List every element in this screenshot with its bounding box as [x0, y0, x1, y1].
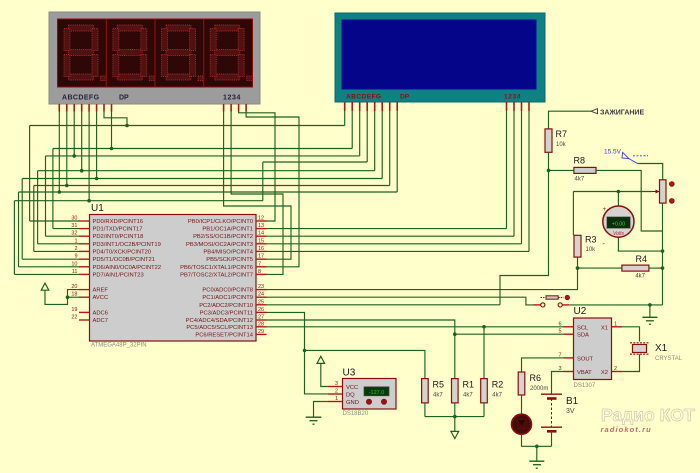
svg-text:SOUT: SOUT	[577, 356, 594, 362]
wire battery to gnd	[551, 431, 553, 446]
svg-text:DP: DP	[119, 95, 129, 102]
svg-text:30: 30	[71, 216, 77, 222]
push button	[534, 295, 570, 307]
svg-text:1234: 1234	[504, 94, 521, 101]
wire R7 bottom to junction	[548, 152, 550, 170]
svg-text:SCL: SCL	[577, 325, 589, 331]
svg-text:29: 29	[258, 329, 264, 335]
wire 7seg pin B drop	[66, 112, 68, 186]
wire resistor bottoms row	[424, 403, 426, 417]
wire DISP2 seg pin 2 drop	[351, 111, 353, 149]
svg-text:+: +	[603, 207, 607, 213]
svg-text:3: 3	[335, 381, 338, 387]
svg-text:15: 15	[258, 238, 264, 244]
svg-text:PC6/RESET/PCINT14: PC6/RESET/PCINT14	[195, 332, 253, 338]
wire 7seg pin G drop (jog)	[104, 112, 127, 126]
svg-text:27: 27	[258, 315, 264, 321]
svg-text:6: 6	[558, 321, 561, 327]
U1 right pins	[256, 216, 267, 335]
wire DISP2 seg pin 1 drop	[344, 111, 346, 126]
wire R3 to PC0	[267, 268, 578, 290]
svg-text:4k7: 4k7	[575, 177, 585, 183]
svg-text:2: 2	[74, 246, 77, 252]
svg-text:DQ: DQ	[346, 393, 355, 399]
svg-text:PC2/ADC2/PCINT10: PC2/ADC2/PCINT10	[199, 303, 253, 309]
svg-text:VBAT: VBAT	[577, 370, 592, 376]
svg-text:PD6/AIN0/OC0A/PCINT22: PD6/AIN0/OC0A/PCINT22	[93, 265, 162, 271]
svg-text:ADC6: ADC6	[93, 310, 108, 316]
svg-text:PC3/ADC3/PCINT11: PC3/ADC3/PCINT11	[200, 310, 253, 316]
svg-text:+0.00: +0.00	[612, 221, 625, 227]
blue display DISP2 (4-digit)	[335, 13, 545, 102]
svg-text:5: 5	[558, 329, 561, 335]
resistor R3	[574, 235, 597, 258]
svg-text:24: 24	[258, 292, 264, 298]
svg-text:25: 25	[258, 299, 264, 305]
svg-text:X2: X2	[601, 370, 608, 376]
wire X2 net	[622, 354, 640, 371]
svg-text:ABCDEFG: ABCDEFG	[346, 94, 381, 101]
ground (battery)	[529, 446, 544, 468]
wire net D row	[38, 170, 375, 172]
wire net C row	[46, 155, 360, 157]
wire DISP2 seg pin 6 drop	[381, 111, 383, 179]
svg-text:4k7: 4k7	[635, 274, 645, 280]
svg-text:R2: R2	[492, 380, 504, 390]
svg-text:7: 7	[258, 261, 261, 267]
DISP1 pins (A-G,DP,1-4)	[59, 104, 246, 112]
wire DISP2 seg pin 7 drop	[389, 111, 391, 186]
svg-text:PD1/TXD/PCINT17: PD1/TXD/PCINT17	[93, 227, 143, 233]
svg-text:19: 19	[71, 307, 77, 313]
svg-text:4k7: 4k7	[463, 393, 473, 399]
wire R5 top	[305, 350, 425, 378]
wire DISP2 digit3 net to U1	[521, 111, 523, 244]
voltage probe 15.5V	[604, 149, 648, 164]
svg-text:ADC7: ADC7	[93, 318, 108, 324]
svg-text:PD3/INT1/OC2B/PCINT19: PD3/INT1/OC2B/PCINT19	[93, 242, 161, 248]
watermark	[601, 405, 695, 434]
svg-text:9: 9	[74, 254, 77, 260]
svg-text:PB4/MISO/PCINT4: PB4/MISO/PCINT4	[203, 249, 253, 255]
wire digit3 net (7seg pin3 to PB0)	[239, 112, 275, 222]
resistor R1	[452, 379, 475, 403]
svg-text:R6: R6	[530, 373, 542, 383]
svg-text:PD2/INT0/PCINT18: PD2/INT0/PCINT18	[93, 234, 144, 240]
svg-text:1: 1	[74, 238, 77, 244]
svg-text:PB7/TOSC2/XTAL2/PCINT7: PB7/TOSC2/XTAL2/PCINT7	[180, 272, 253, 278]
svg-text:14: 14	[258, 231, 264, 237]
svg-text:R3: R3	[585, 235, 597, 245]
wire PC2 sense net	[500, 170, 549, 304]
svg-text:B1: B1	[566, 396, 579, 407]
wire DISP2 seg pin 3 drop	[359, 111, 361, 156]
wire R4 row	[578, 267, 622, 269]
svg-text:PB1/OC1A/PCINT1: PB1/OC1A/PCINT1	[202, 227, 253, 233]
svg-text:R4: R4	[635, 254, 647, 264]
svg-text:2000m: 2000m	[530, 386, 548, 392]
wire net E jog	[262, 162, 264, 201]
wire net E row	[14, 200, 262, 202]
wire DISP2 digit4 net to U1	[528, 111, 530, 251]
resistor R6	[518, 372, 548, 395]
wire net DP row	[53, 148, 352, 150]
wire R3 bottom junction	[577, 257, 579, 268]
wire net C column to U1	[45, 156, 47, 236]
wire wiper row	[573, 191, 652, 193]
ground arrow (below R1)	[454, 417, 456, 432]
svg-text:PB2/SS/OC1B/PCINT2: PB2/SS/OC1B/PCINT2	[193, 234, 253, 240]
U1 pin labels	[93, 219, 254, 338]
wire voltmeter minus	[618, 237, 662, 251]
svg-text:PD0/RXD/PCINT16: PD0/RXD/PCINT16	[93, 219, 144, 225]
svg-text:ATMEGA48P_32PIN: ATMEGA48P_32PIN	[91, 343, 147, 349]
wire net A row	[19, 191, 398, 193]
svg-text:R1: R1	[463, 380, 475, 390]
wire net F row	[22, 178, 382, 180]
svg-text:PB5/SCK/PCINT5: PB5/SCK/PCINT5	[206, 257, 253, 263]
wire DISP2 digit2 net to U1	[513, 111, 515, 236]
svg-text:PD4/T0/XCK/PCINT20: PD4/T0/XCK/PCINT20	[93, 249, 152, 255]
svg-text:16: 16	[258, 246, 264, 252]
svg-text:AVCC: AVCC	[93, 295, 109, 301]
svg-text:3V: 3V	[566, 408, 575, 415]
svg-text:radiokot.ru: radiokot.ru	[601, 425, 652, 434]
svg-text:28: 28	[258, 321, 264, 327]
wire U3 gnd	[314, 402, 328, 417]
svg-text:DS1307: DS1307	[574, 383, 596, 389]
7-segment display DISP1 (4-digit, red)	[49, 12, 260, 104]
svg-text:AREF: AREF	[93, 288, 109, 294]
wire R8 right to pot bottom net	[596, 170, 663, 231]
LED D1	[512, 414, 532, 434]
svg-text:4k7: 4k7	[492, 393, 502, 399]
svg-text:PC4/ADC4/SDA/PCINT12: PC4/ADC4/SDA/PCINT12	[186, 318, 253, 324]
IC U1 ATMEGA body	[90, 203, 257, 349]
resistor R4	[622, 254, 649, 280]
svg-text:U1: U1	[91, 203, 104, 214]
wire VBAT to battery	[552, 372, 564, 395]
svg-text:CRYSTAL: CRYSTAL	[655, 356, 683, 362]
svg-text:Радио КОТ: Радио КОТ	[601, 405, 695, 425]
svg-text:1234: 1234	[223, 95, 241, 102]
svg-text:11: 11	[72, 269, 78, 275]
wire net B row	[34, 185, 390, 187]
svg-text:VCC: VCC	[346, 385, 358, 391]
IC U2 DS1307	[558, 306, 622, 389]
svg-text:8: 8	[258, 269, 261, 275]
resistor R7	[545, 129, 567, 152]
wire AREF/AVCC net	[45, 290, 79, 305]
svg-text:12: 12	[258, 216, 264, 222]
svg-text:2: 2	[335, 389, 338, 395]
wire wiper to R3	[572, 192, 574, 236]
potentiometer RV1	[652, 180, 674, 204]
wire PC3/DQ net	[267, 312, 328, 394]
svg-text:1: 1	[614, 321, 617, 327]
power terminal VCC (left)	[41, 283, 49, 290]
svg-text:4k7: 4k7	[433, 393, 443, 399]
svg-text:31: 31	[71, 223, 77, 229]
svg-text:PB0/ICP1/CLKO/PCINT0: PB0/ICP1/CLKO/PCINT0	[188, 219, 253, 225]
svg-text:22: 22	[71, 315, 77, 321]
voltmeter	[603, 206, 635, 248]
wire net F column to U1	[21, 179, 23, 260]
svg-text:10k: 10k	[586, 247, 597, 253]
DISP2 pins	[345, 102, 529, 111]
wire gnd row	[569, 304, 663, 306]
wire net E column to U1	[13, 201, 15, 275]
svg-text:X1: X1	[601, 325, 608, 331]
svg-text:PC1/ADC1/PCINT9: PC1/ADC1/PCINT9	[202, 295, 253, 301]
wire 7seg pin C drop	[73, 112, 75, 156]
wire net E upper row	[263, 161, 367, 163]
svg-text:ABCDEFG: ABCDEFG	[62, 95, 100, 102]
svg-text:PD7/AIN1/PCINT23: PD7/AIN1/PCINT23	[93, 272, 144, 278]
svg-text:PB3/MOSI/OC2A/PCINT3: PB3/MOSI/OC2A/PCINT3	[186, 242, 253, 248]
wire voltmeter plus	[617, 192, 619, 207]
wire net G row	[30, 125, 345, 127]
ground (near U2)	[642, 305, 657, 324]
svg-text:10k: 10k	[556, 142, 567, 148]
svg-text:DS18B20: DS18B20	[343, 411, 369, 417]
resistor R5	[422, 379, 444, 403]
terminal ZAJIGANIE	[591, 109, 598, 114]
svg-text:15.5V: 15.5V	[604, 149, 622, 156]
svg-text:PC0/ADC0/PCINT8: PC0/ADC0/PCINT8	[202, 288, 253, 294]
IC U3 DS18B20	[328, 368, 396, 418]
wire R6 to LED	[521, 395, 523, 414]
U1 left pins	[71, 216, 89, 321]
wire net B column to U1	[33, 186, 35, 252]
wire DISP2 digit1 net to U1	[506, 111, 508, 229]
svg-text:PD5/T1/OC0B/PCINT21: PD5/T1/OC0B/PCINT21	[93, 257, 156, 263]
wire VCC to U3	[321, 363, 328, 386]
svg-text:-127.0: -127.0	[369, 390, 385, 396]
svg-text:13: 13	[258, 223, 264, 229]
svg-text:17: 17	[258, 254, 264, 260]
wire R8 left	[549, 169, 574, 171]
wire 7seg pin A drop	[58, 112, 60, 193]
svg-text:2: 2	[614, 366, 617, 372]
wire digit2 net (7seg pin2 to PB7)	[231, 112, 283, 275]
svg-text:23: 23	[258, 284, 264, 290]
wire 7seg pin E drop	[88, 112, 90, 201]
wire digit1 net (7seg pin1 to PB5)	[224, 112, 291, 260]
battery B1	[541, 394, 579, 431]
wire pot top	[638, 164, 663, 180]
svg-text:DP: DP	[400, 94, 410, 101]
svg-text:GND: GND	[346, 400, 359, 406]
wire ignition to R7	[549, 111, 592, 129]
wire net G column to U1	[29, 126, 31, 222]
wire PC1 to button	[267, 297, 534, 305]
svg-text:X1: X1	[655, 343, 668, 354]
wire 7seg pin DP drop	[111, 112, 113, 149]
svg-text:SDA: SDA	[577, 333, 589, 339]
power terminal VCC (U3)	[317, 356, 325, 363]
svg-text:32: 32	[71, 231, 77, 237]
wire SCL net	[267, 326, 564, 328]
wire LED to gnd row	[522, 434, 552, 446]
svg-text:U3: U3	[343, 368, 356, 379]
wire DISP2 seg pin 4 drop	[366, 111, 368, 162]
svg-text:26: 26	[258, 307, 264, 313]
svg-text:R8: R8	[574, 156, 586, 166]
wire net D column to U1	[37, 171, 39, 244]
wire net A column to U1	[18, 192, 20, 267]
wire R1 top	[454, 334, 456, 378]
resistor R8	[574, 156, 597, 183]
wire DISP2 seg pin 5 drop	[374, 111, 376, 171]
wire 7seg pin D drop	[81, 112, 83, 171]
wire SOUT to R6	[522, 358, 564, 372]
wire R2 top	[483, 327, 485, 379]
svg-text:PC5/ADC5/SCL/PCINT13: PC5/ADC5/SCL/PCINT13	[186, 325, 253, 331]
wire net DP column to U1	[52, 149, 54, 229]
wire 7seg pin F drop	[96, 112, 98, 179]
wire digit4 net (7seg pin4 to PB6)	[246, 112, 299, 267]
wire X1 net	[622, 327, 640, 342]
svg-text:1: 1	[335, 396, 338, 402]
wire pot bottom to gnd row	[662, 203, 664, 305]
svg-text:PB6/TOSC1/XTAL1/PCINT6: PB6/TOSC1/XTAL1/PCINT6	[180, 265, 253, 271]
svg-text:U2: U2	[574, 306, 587, 317]
svg-text:R7: R7	[556, 129, 568, 139]
wire DISP2 seg pin 8 drop	[396, 111, 398, 192]
ground (U3)	[306, 417, 322, 424]
svg-text:ЗАЖИГАНИЕ: ЗАЖИГАНИЕ	[600, 110, 644, 117]
svg-text:Volts: Volts	[613, 231, 624, 237]
svg-text:10: 10	[71, 261, 77, 267]
svg-text:R5: R5	[433, 380, 445, 390]
resistor R2	[481, 379, 504, 403]
wire SDA net	[267, 320, 564, 334]
crystal X1	[630, 343, 683, 362]
